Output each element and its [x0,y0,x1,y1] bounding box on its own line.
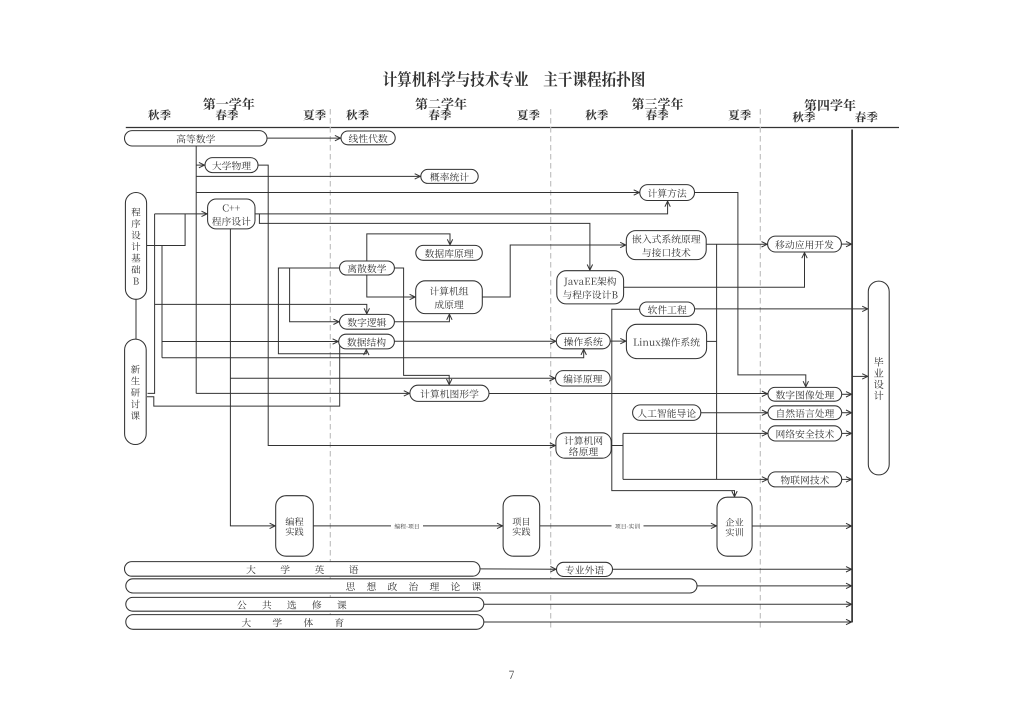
wire 程序设计基础B→C++ feeder [147,214,186,246]
wire 数字逻辑→计组 bottom [394,314,449,322]
node 软件工程 [640,302,695,316]
arrowhead into 毕业设计 [862,306,868,311]
wire 公共选修课→spine [484,603,852,605]
wire →物联网技术 [623,478,768,480]
wire 计组→嵌入式 [482,245,626,297]
graduation spine line [851,130,853,623]
node JavaEE架构与程序设计B [557,271,624,304]
header season 秋季 @159.5 [148,109,171,120]
arrowhead 思政 into spine [846,583,852,588]
arrowhead into 移动应用开发 [762,242,768,247]
arrowhead into JavaEE top [587,265,592,271]
header season 春季 @439.9 [429,109,452,120]
wire 新生研讨课 link [147,342,340,406]
arrowhead into Linux [620,338,626,343]
node 操作系统 [556,333,610,348]
node 数字图像处理 [768,387,842,401]
wire 离散数学→计算机图形学 top [394,268,449,385]
arrowhead into 计组 bottom [447,314,452,320]
arrowhead into 自语 [762,410,768,415]
wire →计算方法 [196,192,639,194]
wire feeder down to 新生研讨课 [148,214,155,394]
wire 程序设计基础B→新生研讨课 [135,299,137,339]
header season 秋季 @803.9 [793,111,816,122]
node Linux操作系统 [626,324,706,358]
wire junction updown [622,433,624,479]
arrowhead into 项目实践 [497,523,503,528]
arrowhead into 编程实践 [270,523,276,528]
node 数据结构 [339,334,395,349]
header year 第三学年 [632,97,683,109]
arrowhead into 毕设 [862,374,868,379]
edge label 编程-项目 [391,523,423,530]
wire 嵌入式 trunk down [716,244,718,479]
arrowhead into 大学物理 [199,162,205,167]
arrowhead 企业实训 into spine [846,523,852,528]
arrowhead into 计组 [410,294,416,299]
node 人工智能导论 [633,405,701,421]
wire right node→spine @433.4 [842,432,852,434]
wire branch→数字逻辑 top [155,304,367,314]
arrowhead into spine @394.3 [846,392,852,397]
wire C++→计算方法 [255,201,668,214]
arrowhead into 操作系统 bottom [581,349,586,355]
wire 软件工程→毕业设计 [695,308,868,310]
header season 秋季 @357.6 [346,109,369,120]
arrowhead into 数字逻辑 top [364,308,369,314]
wire 企业实训→spine [752,525,852,527]
node 概率统计 [421,169,478,183]
header year 第四学年 [804,99,855,111]
arrowhead into 线性代数 [335,135,341,140]
node 线性代数 [341,131,395,145]
node 数字逻辑 [340,314,395,329]
wire C++→JavaEE架构 [259,214,590,270]
arrowhead into 数图 [762,391,768,396]
arrowhead into 数据库原理 top [447,239,452,245]
wire 大学英语→专业外语 [480,568,556,570]
wire 大学物理→计算机网络原理 [258,165,555,445]
arrowhead 专业外语 into spine [846,567,852,572]
node 离散数学 [340,261,395,275]
title [383,71,644,87]
arrowhead into 数据结构 bottom [364,350,369,356]
edge label 项目-实训 [612,523,644,530]
arrowhead into 概率统计 [415,174,421,179]
year divider dashed @760.3 [759,109,761,630]
wire 离散数学→计算机组成原理 [367,275,415,297]
node 嵌入式系统原理与接口技术 [626,231,706,260]
wire →操作系统 bottom [162,349,584,358]
arrowhead into C++ [202,211,208,216]
arrowhead 移动 into spine [846,241,852,246]
wire 程序设计基础B trunk2 [161,246,163,358]
header season 春季 @226.9 [216,109,239,120]
arrowhead into spine @412.7 [846,410,852,415]
node 移动应用开发 [768,236,842,252]
wire right node→spine @479.4 [842,478,852,480]
wire →概率统计 [196,175,420,177]
arrowhead into 数据结构 [333,339,339,344]
wire C++→编译原理 [230,377,555,379]
node 高等数学 [125,131,268,146]
wire →数据结构 [162,341,338,343]
node 专业外语 [557,562,613,576]
node 大学物理 [205,158,258,173]
header season 夏季 @314.6 [303,109,326,120]
wire 大学体育→spine [484,621,852,623]
node 企业实训 [717,497,752,556]
node 计算方法 [640,185,695,201]
node 思想政治理论课 [126,579,697,593]
header season 春季 @657.1 [646,109,669,120]
wire 计算方法→数字图像处理 [695,193,806,387]
wire 思想政治理论课→spine [697,585,852,587]
arrowhead into 计算方法 [634,190,640,195]
arrowhead into 网安 [762,431,768,436]
node 大学英语 [125,562,481,577]
wire right node→spine @412.7 [842,412,852,414]
arrowhead 体育 into spine [846,619,852,624]
arrowhead into spine @433.4 [846,431,852,436]
header year 第二学年 [415,97,466,109]
wire 人工智能→自然语言处理 [701,412,768,414]
arrowhead into spine @479.4 [846,477,852,482]
node 物联网技术 [768,472,842,487]
wire 离散数学 left loop→数据结构 bottom [278,268,366,354]
arrowhead into 操作系统 [550,339,556,344]
wire 嵌入式→移动应用开发 [706,243,767,245]
wire 计网 right junction [611,445,623,447]
arrowhead into 企业实训 top [732,491,737,497]
arrowhead into 计算机网络原理 [550,443,556,448]
arrowhead 公选 into spine [846,602,852,607]
arrowhead into 物联 [762,477,768,482]
wire →网络安全技术 [623,432,768,434]
node 新生研讨课 [125,339,147,444]
arrowhead into 企业实训 [711,523,717,528]
header season 春季 @866.3 [855,111,878,122]
arrowhead into 移动 bottom [802,253,807,259]
wire →大学物理 [196,164,204,166]
arrowhead into 计算方法 bottom [665,201,670,207]
wire C++ trunk down→编程实践 [230,229,275,526]
wire 软件工程→企业实训 [612,309,735,497]
arrowhead into 嵌入式 [620,242,626,247]
wire 离散数学→数字逻辑 [290,268,339,322]
node 数据库原理 [416,245,483,260]
wire 高等数学 trunk down [195,146,197,393]
node 程序设计基础B [125,193,146,300]
arrowhead into 编译原理 [549,376,555,381]
wire 专业外语→spine [613,568,852,570]
node 自然语言处理 [768,406,842,420]
node 计算机组成原理 [416,281,483,314]
wire 高等数学→线性代数 [267,137,341,139]
wire 离散数学→数据库原理 [367,234,450,261]
header season 夏季 @528.4 [517,109,540,120]
wire 编程实践→项目实践 [313,525,502,527]
node 网络安全技术 [768,426,842,441]
wire 数据结构→操作系统 [394,340,555,342]
wire right node→spine @394.3 [842,393,852,395]
node 计算机网络原理 [556,433,611,458]
year divider dashed @330.3 [329,109,331,630]
wire 项目实践→企业实训 [540,525,717,527]
node 项目实践 [503,496,540,557]
page number 7 [509,671,514,679]
wire spine→毕业设计 [852,375,868,377]
arrowhead into 数字逻辑 [333,319,339,324]
node C++程序设计 [208,199,255,229]
header season 秋季 @596.8 [585,109,608,120]
wire 移动→spine [841,243,851,245]
header season 夏季 @739.7 [728,109,751,120]
year divider dashed @550.7 [550,109,552,630]
wire JavaEE→移动 bottom [624,253,805,288]
node 毕业设计 [868,281,889,475]
wire Linux→junction [707,340,717,342]
node 编程实践 [276,496,314,557]
node 公共选修课 [126,597,484,611]
wire →计算机图形学 [196,392,409,394]
arrowhead into 专业外语 [550,567,556,572]
header underline [126,127,899,129]
wire into C++程序设计 [155,213,208,215]
arrowhead into 数图 top [803,381,808,387]
arrowhead into 计图 top [447,379,452,385]
node 编译原理 [556,371,611,386]
wire 计算机图形学→数字图像处理 [489,393,768,395]
arrowhead into 计算机图形学 [404,391,410,396]
wire 操作系统→Linux [610,340,626,342]
header year 第一学年 [203,97,254,109]
node 计算机图形学 [410,385,489,401]
node 大学体育 [126,615,484,630]
